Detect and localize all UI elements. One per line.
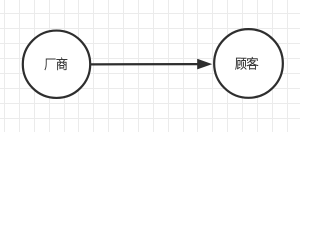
label 厂商 — [45, 58, 67, 70]
circle node: manufacturer — [23, 31, 90, 98]
circle node: customer — [214, 29, 283, 98]
wire: arrow connector — [90, 63, 199, 65]
arrowhead — [197, 59, 212, 70]
canvas background — [0, 0, 300, 132]
label 顾客 — [235, 57, 258, 69]
